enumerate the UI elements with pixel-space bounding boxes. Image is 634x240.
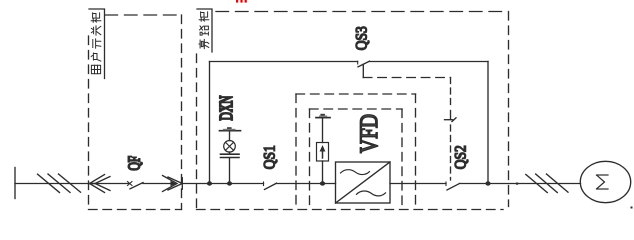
wire stub marker: [516, 183, 518, 185]
arrester arrow: [322, 150, 324, 159]
node: bypass rejoin junction: [485, 181, 490, 185]
路: [200, 32, 208, 35]
interlock linkage QS3-QS2 (dashed): [362, 64, 364, 77]
three-phase slashes (right): [526, 174, 548, 192]
wire: arrester branch: [322, 161, 324, 184]
interlock auxiliary contact: [450, 111, 452, 120]
svg-text:QS2: QS2: [453, 145, 470, 169]
stray ink dot: [631, 207, 633, 209]
wire: main bus, QS2 to motor: [460, 183, 581, 185]
converter VFD box: [336, 162, 391, 203]
label box 用户开关柜: [89, 9, 105, 79]
three-phase slashes (left): [38, 174, 60, 192]
cabinet box 用户开关柜 (dashed outline): [89, 15, 182, 210]
switch QS2 blade: [447, 184, 460, 191]
svg-text:QS1: QS1: [262, 145, 279, 169]
arrester top plate with boss: [316, 117, 330, 119]
breaker QF drawout chevrons (right): [163, 176, 178, 192]
svg-text:DXN: DXN: [216, 96, 236, 121]
柜: [91, 19, 101, 22]
node: arrester tap junction: [320, 181, 325, 185]
breaker QF drawout chevrons (left): [90, 175, 105, 193]
node: DXN tap junction: [227, 181, 232, 185]
label 旁路柜 (pseudo glyph strokes, rotated): [199, 39, 209, 48]
breaker QF contact and blade: [128, 182, 133, 186]
cabinet box 旁路柜 (dashed outline): [197, 12, 509, 210]
wire: main bus, VFD output to QS2: [390, 183, 446, 185]
wire: DXN branch: [229, 158, 231, 183]
source terminal bar: [14, 168, 16, 199]
wire: bypass top run (left of QS3): [210, 61, 358, 63]
converter input tilde: [341, 170, 370, 175]
wire: bypass downcomer: [487, 62, 489, 184]
svg-text:VFD: VFD: [355, 114, 383, 153]
wire: main bus, source to QF: [15, 183, 130, 185]
DXN lamp (circle with X): [224, 141, 236, 153]
label 用户开关柜 (pseudo glyph strokes, rotated): [91, 65, 100, 73]
wire: main bus, QF blade to drawout contact: [143, 183, 171, 185]
motor M circle: [580, 161, 630, 202]
red revision dots: [236, 0, 247, 3]
wire: arrester to top plate: [322, 118, 324, 142]
converter output tilde: [357, 191, 386, 196]
VFD cabinet outer dashed box: [296, 94, 416, 210]
wire: bypass top run (right of QS3): [370, 61, 489, 63]
interlock linkage lower (dashed): [450, 125, 452, 180]
关: [91, 26, 100, 35]
switch QS1 contact tick: [263, 182, 265, 186]
svg-text:QF: QF: [126, 156, 145, 171]
switch QS3 blade: [357, 61, 359, 64]
converter diagonal: [336, 162, 391, 203]
户: [91, 53, 101, 61]
DXN top plate with boss: [220, 130, 241, 132]
用: [91, 65, 100, 73]
label M: [597, 175, 609, 189]
switch QS2 contact tick: [445, 182, 447, 186]
arrester FV box: [317, 143, 329, 162]
柜: [199, 18, 209, 21]
DXN capacitor plates: [221, 153, 240, 155]
wire: bypass riser: [209, 62, 211, 184]
开: [93, 39, 101, 48]
wire: main bus, QS1 to VFD input: [276, 183, 336, 185]
VFD cabinet inner dashed box: [310, 109, 403, 210]
node: bypass tap junction: [207, 181, 212, 185]
wire: main bus, QF to QS1: [182, 183, 264, 185]
旁: [199, 39, 209, 48]
switch QS1 blade: [265, 183, 277, 189]
label box 旁路柜: [197, 9, 212, 52]
svg-text:QS3: QS3: [354, 26, 371, 50]
